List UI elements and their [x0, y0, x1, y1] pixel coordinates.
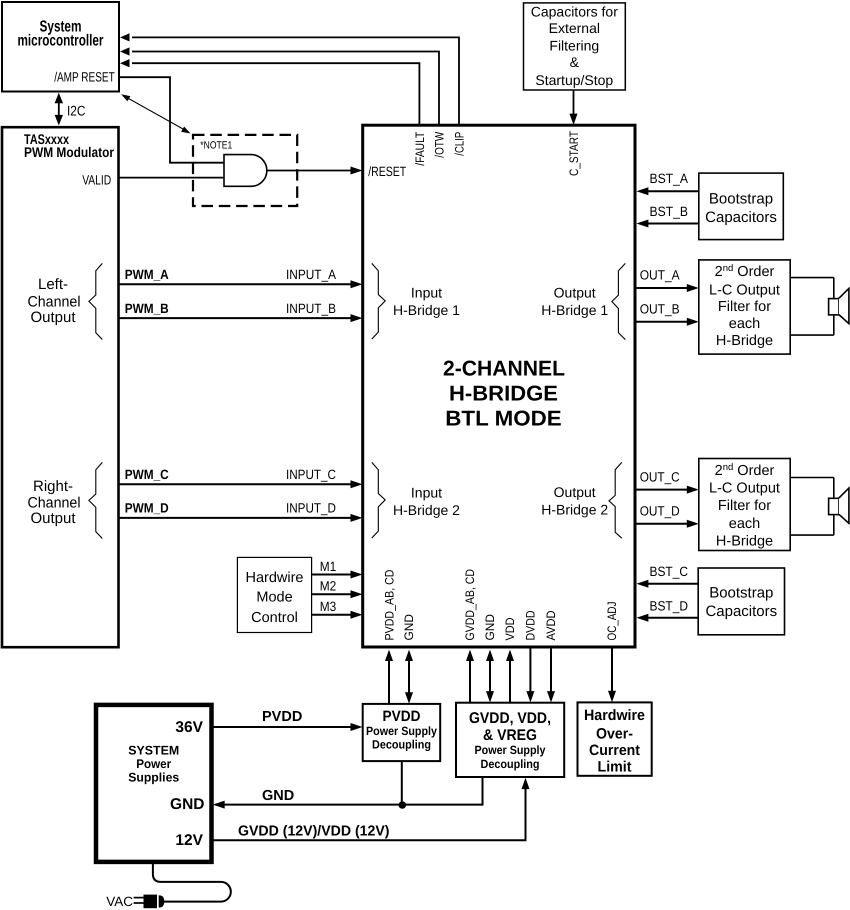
- svg-text:Control: Control: [251, 610, 298, 626]
- wire BST_C: [636, 580, 698, 588]
- svg-text:GND: GND: [483, 614, 497, 641]
- svg-text:OUT_D: OUT_D: [640, 504, 680, 519]
- svg-text:H-Bridge 1: H-Bridge 1: [541, 302, 608, 318]
- wire VALID to AND gate: [119, 177, 225, 179]
- block: 2nd order L-C output filter (upper): [699, 260, 790, 354]
- svg-text:H-Bridge 2: H-Bridge 2: [541, 502, 608, 518]
- wire /AMP RESET to AND gate: [120, 77, 224, 163]
- svg-text:/CLIP: /CLIP: [452, 132, 466, 156]
- svg-text:each: each: [729, 316, 760, 332]
- note arrow (double headed diagonal): [121, 94, 191, 133]
- svg-text:& VREG: & VREG: [483, 727, 537, 744]
- svg-text:OUT_B: OUT_B: [640, 302, 680, 317]
- svg-text:H-BRIDGE: H-BRIDGE: [449, 381, 558, 405]
- svg-text:M3: M3: [320, 599, 337, 614]
- svg-text:INPUT_C: INPUT_C: [286, 467, 336, 482]
- svg-text:BST_D: BST_D: [650, 598, 689, 613]
- wire OC_ADJ down arrow: [608, 648, 616, 702]
- svg-text:PVDD: PVDD: [262, 709, 302, 725]
- svg-text:Hardwire: Hardwire: [245, 570, 303, 586]
- wire C_START from capacitor box: [570, 90, 578, 125]
- brace output h-bridge 1: [612, 263, 625, 339]
- svg-text:PVDD_AB, CD: PVDD_AB, CD: [383, 569, 397, 640]
- svg-text:Input: Input: [411, 485, 442, 501]
- wire 12V GVDD/VDD: [213, 778, 530, 841]
- svg-text:Right-: Right-: [33, 478, 73, 495]
- wire BST_D: [636, 614, 698, 622]
- svg-text:GND: GND: [402, 614, 416, 641]
- svg-text:Filter for: Filter for: [718, 498, 771, 514]
- svg-text:BST_C: BST_C: [650, 564, 689, 579]
- svg-text:BTL MODE: BTL MODE: [445, 407, 562, 431]
- svg-text:Startup/Stop: Startup/Stop: [535, 72, 613, 88]
- block: Hardwire Mode Control: [237, 557, 311, 632]
- text: Right-Channel Output: [28, 478, 81, 527]
- svg-text:GVDD, VDD,: GVDD, VDD,: [469, 710, 551, 727]
- block: SYSTEM Power Supplies: [96, 705, 212, 862]
- svg-text:PWM_B: PWM_B: [125, 301, 169, 316]
- speaker 2 wiring: [790, 478, 834, 536]
- wire PWM_C / INPUT_C: [119, 480, 363, 488]
- svg-text:PWM_D: PWM_D: [125, 501, 169, 516]
- svg-text:Bootstrap: Bootstrap: [709, 584, 773, 601]
- svg-text:H-Bridge: H-Bridge: [716, 533, 773, 549]
- wire GND2 pin double arrow: [486, 650, 494, 703]
- block: GVDD, VDD, & VREG Power Supply Decoupling: [456, 703, 564, 777]
- AND gate U1: [224, 155, 267, 187]
- wire GND return: [213, 778, 483, 809]
- svg-text:L-C Output: L-C Output: [709, 282, 780, 298]
- svg-text:Hardwire: Hardwire: [584, 707, 645, 724]
- svg-text:Power Supply: Power Supply: [366, 724, 437, 738]
- svg-text:/RESET: /RESET: [368, 164, 406, 179]
- text: Left-Channel Output: [28, 276, 81, 326]
- dashed note box *NOTE1: [193, 135, 297, 206]
- svg-text:VAC: VAC: [106, 894, 133, 909]
- svg-text:GVDD_AB, CD: GVDD_AB, CD: [463, 569, 477, 641]
- block: Bootstrap Capacitors (upper): [699, 173, 784, 240]
- svg-text:Bootstrap: Bootstrap: [709, 190, 773, 207]
- svg-text:VALID: VALID: [82, 173, 111, 188]
- svg-text:OUT_A: OUT_A: [640, 268, 680, 283]
- brace left-channel group: [89, 263, 102, 339]
- svg-text:Channel: Channel: [28, 495, 81, 512]
- svg-text:INPUT_A: INPUT_A: [286, 267, 336, 282]
- svg-text:Mode: Mode: [256, 590, 292, 606]
- wire /CLIP to microcontroller: [120, 33, 459, 125]
- brace input h-bridge 2: [372, 462, 385, 538]
- svg-text:H-Bridge: H-Bridge: [716, 333, 773, 349]
- svg-text:I2C: I2C: [67, 103, 86, 119]
- svg-text:AVDD: AVDD: [544, 610, 558, 640]
- svg-text:2-CHANNEL: 2-CHANNEL: [443, 357, 565, 381]
- wire PWM_D / INPUT_D: [119, 514, 363, 522]
- wire /OTW to microcontroller: [120, 47, 439, 125]
- brace input h-bridge 1: [372, 263, 385, 339]
- svg-text:Current: Current: [589, 742, 640, 759]
- svg-text:Filtering: Filtering: [549, 37, 599, 53]
- brace output h-bridge 2: [609, 462, 622, 538]
- wire GND pin double arrow: [405, 650, 413, 704]
- svg-text:BST_A: BST_A: [650, 171, 689, 186]
- svg-text:C_START: C_START: [567, 131, 581, 176]
- VAC plug: [106, 894, 164, 909]
- svg-text:PWM_C: PWM_C: [125, 467, 169, 482]
- svg-text:Channel: Channel: [28, 293, 81, 310]
- block: Capacitors for External Filtering & Startup/Stop: [524, 3, 626, 90]
- svg-text:OUT_C: OUT_C: [640, 469, 680, 484]
- wire DVDD pin down arrow: [526, 648, 534, 703]
- svg-text:INPUT_B: INPUT_B: [286, 301, 336, 316]
- wire PWM_B / INPUT_B: [119, 314, 363, 322]
- svg-text:H-Bridge 2: H-Bridge 2: [393, 502, 460, 518]
- wire PVDD decoupling to GND: [401, 761, 403, 805]
- svg-text:INPUT_D: INPUT_D: [286, 501, 336, 516]
- svg-text:External: External: [549, 20, 600, 36]
- svg-text:Output: Output: [554, 284, 596, 300]
- svg-text:GVDD (12V)/VDD (12V): GVDD (12V)/VDD (12V): [238, 824, 390, 840]
- svg-text:Output: Output: [30, 309, 76, 326]
- wire AND output to /RESET: [267, 167, 363, 175]
- wire power cord: [153, 862, 231, 901]
- wire OUT_C: [635, 486, 699, 494]
- svg-text:DVDD: DVDD: [524, 610, 538, 640]
- svg-text:OC_ADJ: OC_ADJ: [605, 602, 619, 641]
- wire M2: [312, 590, 363, 598]
- wire PWM_A / INPUT_A: [119, 280, 363, 288]
- wire M3: [312, 611, 363, 619]
- block: Hardwire Over-Current Limit: [578, 702, 652, 775]
- svg-text:Supplies: Supplies: [128, 771, 179, 785]
- svg-text:M1: M1: [320, 559, 337, 574]
- wire /FAULT to microcontroller: [120, 59, 419, 125]
- svg-text:/FAULT: /FAULT: [413, 131, 427, 165]
- svg-text:GND: GND: [170, 796, 204, 813]
- svg-text:Capacitors: Capacitors: [705, 603, 777, 620]
- svg-text:Output: Output: [30, 510, 76, 527]
- block: Bootstrap Capacitors (lower): [698, 568, 784, 635]
- wire AVDD pin down arrow: [547, 648, 555, 703]
- wire OUT_A: [635, 284, 699, 292]
- speaker 1 wiring: [790, 278, 834, 336]
- junction dot: [399, 801, 407, 809]
- I2C bus double arrow: [55, 93, 86, 126]
- brace right-channel group: [89, 462, 102, 538]
- svg-text:Output: Output: [554, 484, 596, 500]
- wire M1: [312, 571, 363, 579]
- svg-text:PWM_A: PWM_A: [125, 267, 169, 282]
- svg-text:L-C Output: L-C Output: [709, 480, 780, 496]
- svg-text:each: each: [729, 516, 760, 532]
- block: 2nd order L-C output filter (lower): [699, 459, 790, 551]
- svg-text:BST_B: BST_B: [650, 204, 689, 219]
- svg-text:GND: GND: [262, 788, 294, 804]
- svg-text:Power: Power: [136, 757, 171, 771]
- svg-text:*NOTE1: *NOTE1: [200, 139, 232, 151]
- svg-text:PWM Modulator: PWM Modulator: [24, 144, 114, 160]
- wire PVDD_AB,CD pin up arrow: [385, 650, 393, 704]
- svg-text:&: &: [570, 54, 580, 70]
- svg-text:H-Bridge 1: H-Bridge 1: [393, 302, 460, 318]
- svg-text:Decoupling: Decoupling: [481, 757, 540, 771]
- wire OUT_D: [635, 520, 699, 528]
- wire GVDD_AB,CD pin up arrow: [466, 650, 474, 703]
- svg-text:Filter for: Filter for: [718, 299, 771, 315]
- svg-text:Left-: Left-: [38, 276, 68, 293]
- block: 2-CHANNEL H-BRIDGE BTL MODE main device: [363, 125, 635, 647]
- svg-text:Input: Input: [411, 285, 442, 301]
- wire OUT_B: [635, 318, 699, 326]
- svg-text:Decoupling: Decoupling: [372, 738, 431, 752]
- svg-text:M2: M2: [320, 579, 337, 594]
- block: System microcontroller: [2, 2, 119, 92]
- svg-text:/AMP RESET: /AMP RESET: [54, 70, 115, 85]
- wire BST_B: [636, 220, 698, 228]
- svg-text:PVDD: PVDD: [383, 708, 421, 725]
- svg-text:Capacitors: Capacitors: [705, 209, 777, 226]
- svg-text:Power Supply: Power Supply: [475, 743, 546, 757]
- svg-text:Capacitors for: Capacitors for: [531, 4, 618, 20]
- block: TASxxxx PWM Modulator: [2, 127, 119, 647]
- wire PVDD 36V supply: [213, 723, 363, 731]
- speaker 1: [829, 288, 849, 323]
- block: PVDD Power Supply Decoupling: [363, 704, 441, 761]
- wire BST_A: [636, 187, 698, 195]
- svg-text:microcontroller: microcontroller: [18, 32, 104, 49]
- wire VDD pin up arrow: [506, 650, 514, 703]
- svg-text:36V: 36V: [175, 719, 203, 736]
- svg-text:Limit: Limit: [598, 758, 632, 775]
- svg-text:/OTW: /OTW: [433, 131, 447, 157]
- svg-text:12V: 12V: [175, 832, 203, 849]
- speaker 2: [829, 488, 849, 523]
- svg-text:Over-: Over-: [596, 725, 633, 742]
- svg-text:VDD: VDD: [503, 617, 517, 640]
- svg-text:SYSTEM: SYSTEM: [128, 744, 179, 758]
